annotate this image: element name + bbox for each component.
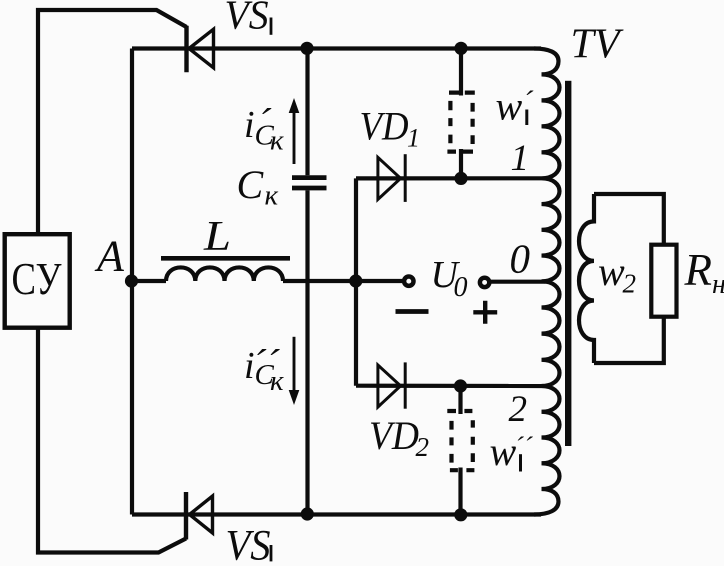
- svg-text:VS: VS: [225, 0, 269, 38]
- svg-text:2: 2: [416, 432, 430, 462]
- junction dot node1 / tap: [454, 172, 467, 185]
- junction dot top wire / tap: [454, 42, 467, 55]
- diode VD1 cathode bar: [404, 154, 407, 202]
- dashed winding section w1': [447, 93, 474, 152]
- wire node 0 horizontal: A-dot to inductor, inductor to diode line, to minus terminal: [132, 279, 403, 283]
- wire top gate path from CY box to VS1 top gate: [38, 10, 187, 234]
- wire left vertical line through node A: [130, 49, 134, 515]
- thyristor VS1 top: cathode bar: [184, 26, 188, 72]
- junction dot on diode line at node 0: [349, 274, 362, 287]
- svg-text:´´: ´´: [515, 432, 534, 462]
- secondary loop wires: [594, 194, 664, 363]
- wire bottom gate path from CY box to VS1 bottom gate: [38, 328, 186, 553]
- svg-text:к: к: [270, 365, 284, 397]
- svg-text:0: 0: [510, 236, 531, 282]
- svg-text:w: w: [496, 84, 523, 129]
- svg-text:VD: VD: [360, 103, 409, 148]
- svg-text:к: к: [265, 180, 279, 212]
- svg-text:2: 2: [623, 269, 637, 299]
- label minus sign: [396, 309, 429, 314]
- svg-text:R: R: [684, 245, 713, 295]
- svg-text:н: н: [712, 269, 724, 300]
- current arrow i''Ck (down): [289, 337, 298, 404]
- wire diode anode vertical line: [354, 178, 358, 385]
- svg-text:´: ´: [523, 85, 534, 118]
- tap wire w1'' vertical (bottom dashed section feeds): [458, 386, 462, 515]
- svg-text:w: w: [598, 249, 625, 294]
- svg-text:1: 1: [511, 138, 530, 179]
- wire node 1 horizontal through VD1: [356, 176, 542, 180]
- svg-text:C: C: [237, 162, 265, 207]
- inductor L magnetic bar: [161, 256, 290, 261]
- transformer TV primary winding: [534, 49, 560, 515]
- svg-text:к: к: [270, 125, 284, 157]
- thyristor VS1 top: triangle: [189, 29, 214, 68]
- svg-text:1: 1: [407, 123, 420, 152]
- junction dot node2 / tap: [454, 379, 467, 392]
- svg-text:w: w: [490, 429, 517, 474]
- svg-text:СУ: СУ: [12, 254, 62, 304]
- svg-text:A: A: [94, 232, 125, 281]
- thyristor VS1 bottom: cathode bar: [184, 492, 188, 540]
- capacitor Ck vertical feed wires: [305, 49, 309, 515]
- terminal circle minus: [404, 277, 413, 286]
- dashed winding section w1'': [447, 411, 474, 470]
- terminal circle plus: [480, 278, 489, 287]
- svg-text:L: L: [203, 214, 231, 260]
- diode VD2 cathode bar: [404, 362, 407, 408]
- node A junction dot: [125, 274, 138, 287]
- wire bottom main horizontal: [132, 512, 541, 516]
- control unit CY box: [5, 234, 70, 328]
- wire node 0 right segment: plus terminal to winding: [491, 280, 546, 284]
- wire top main horizontal: [132, 46, 541, 50]
- svg-text:2: 2: [509, 389, 528, 430]
- diode VD2 triangle: [378, 365, 401, 407]
- junction dot top wire / Ck: [300, 42, 313, 55]
- tap wire w1' vertical (top dashed section feeds): [459, 49, 463, 179]
- svg-text:i: i: [244, 104, 255, 146]
- current arrow i'Ck (up): [289, 100, 298, 165]
- resistor Rn box: [651, 245, 676, 317]
- svg-text:VS: VS: [226, 523, 271, 566]
- junction dot bottom wire / tap: [454, 508, 467, 521]
- secondary winding w2 coil: [579, 194, 594, 363]
- inductor L coil: [166, 267, 283, 281]
- label plus sign: [473, 301, 497, 324]
- svg-text:VD: VD: [369, 413, 419, 458]
- thyristor VS1 bottom: triangle: [190, 496, 213, 533]
- junction dot bottom wire / Ck: [301, 507, 314, 520]
- capacitor C_k plates: [292, 178, 327, 188]
- transformer core bar: [565, 81, 571, 446]
- svg-text:TV: TV: [571, 22, 624, 68]
- wire node 2 horizontal through VD2: [356, 384, 542, 388]
- diode VD1 triangle: [378, 157, 401, 199]
- svg-text:0: 0: [454, 272, 468, 303]
